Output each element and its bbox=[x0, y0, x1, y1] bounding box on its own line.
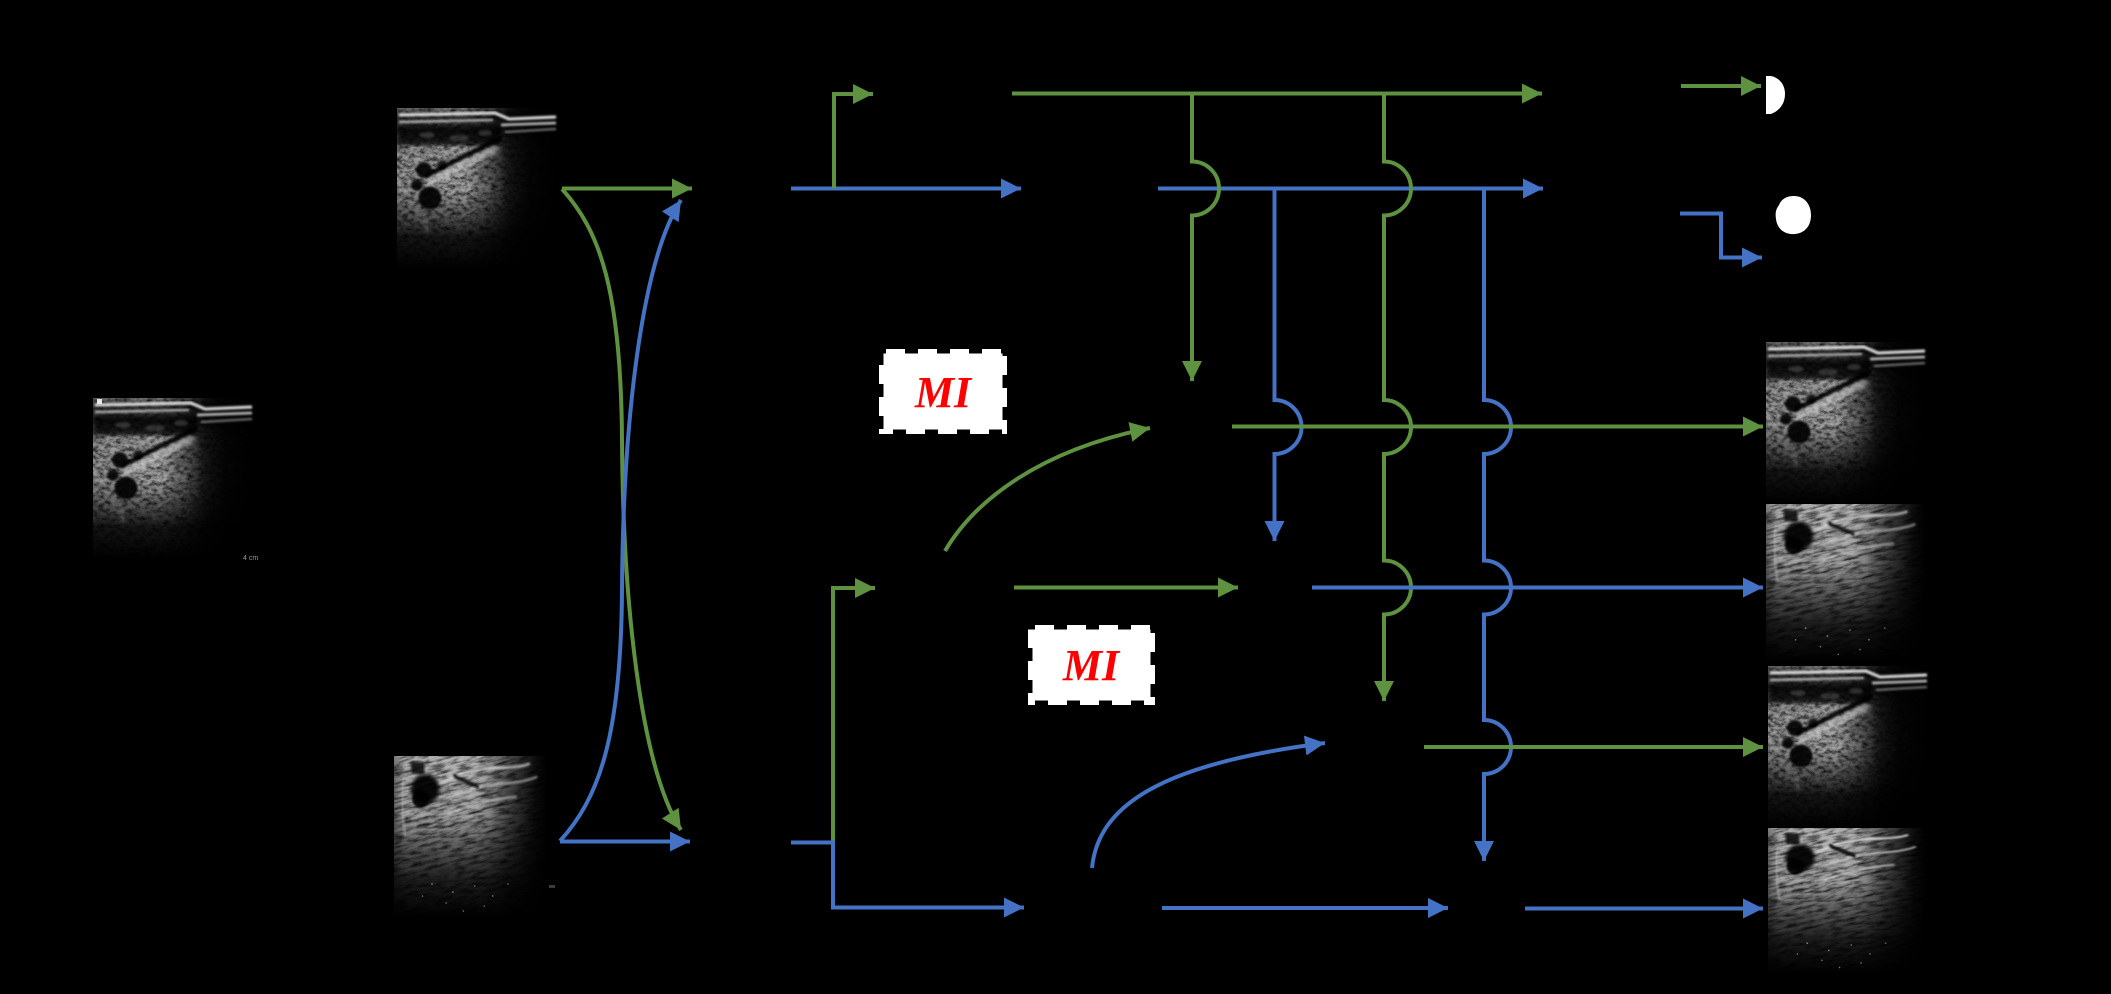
svg-text:MI: MI bbox=[1062, 641, 1121, 690]
blue step arrow to mask 2 bbox=[1680, 214, 1762, 258]
svg-text:4 cm: 4 cm bbox=[243, 555, 258, 562]
MI loss box bbox=[879, 349, 1007, 434]
svg-text:MI: MI bbox=[914, 368, 973, 417]
ultrasound image: warped fixed A (right stack 1) bbox=[1766, 342, 1927, 503]
blue line: second horizontal segment bbox=[1158, 187, 1543, 191]
ultrasound image: fixed input (left) bbox=[93, 398, 254, 559]
green vertical 2 with hops bbox=[1384, 94, 1411, 702]
ultrasound image: warped moving D (right stack 4) bbox=[1728, 791, 1967, 994]
green arrow: encoder1 L-shaped up bbox=[834, 94, 873, 189]
green arrow: fixed image to encoder (straight) bbox=[562, 187, 692, 191]
MI loss box bbox=[1028, 625, 1155, 705]
green arrow: fixed image swap curve (down) bbox=[562, 189, 681, 830]
blue line: bottom row to warped image D bbox=[1525, 907, 1763, 911]
ultrasound image: warped moving B (right stack 2) bbox=[1725, 464, 1966, 700]
segmentation mask 2 (round blob) bbox=[1776, 196, 1811, 234]
green line: long top skip connection bbox=[1012, 92, 1542, 96]
green vertical 1 with hop bbox=[1192, 94, 1219, 382]
blue arrow: moving image swap curve (up) bbox=[560, 200, 681, 841]
blue arrow: encoder1 output horizontal bbox=[791, 187, 1021, 191]
green L-arrow up from encoder2 bbox=[833, 588, 875, 843]
blue arrow: moving image to encoder (straight) bbox=[560, 840, 690, 844]
blue vertical 1 with hop bbox=[1275, 189, 1302, 542]
green arrow to mask 1 bbox=[1681, 84, 1761, 88]
ultrasound image: fixed (top-center) bbox=[397, 108, 558, 269]
segmentation mask 1 (D-shape) bbox=[1766, 76, 1785, 114]
green curved arrow to STN1 bbox=[945, 428, 1150, 551]
ultrasound image: warped fixed C (right stack 3) bbox=[1768, 666, 1929, 827]
blue step down arrow from encoder2 bbox=[791, 843, 1024, 908]
ultrasound image: moving (bottom-center) bbox=[355, 715, 586, 959]
blue vertical 2 with hops bbox=[1484, 189, 1511, 862]
blue line: row to warped image B bbox=[1312, 586, 1763, 590]
green line: row to warped image C bbox=[1424, 745, 1763, 749]
green arrow: decoder2 row bbox=[1014, 586, 1238, 590]
green line: row to warped image A bbox=[1232, 425, 1763, 429]
blue line: bottom row segment 2 bbox=[1162, 906, 1448, 910]
blue curved arrow to STN2 bbox=[1092, 743, 1325, 868]
